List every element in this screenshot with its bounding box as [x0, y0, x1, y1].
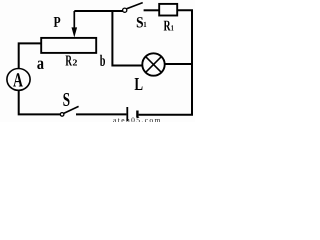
svg-text:aten05.com: aten05.com	[113, 115, 162, 122]
